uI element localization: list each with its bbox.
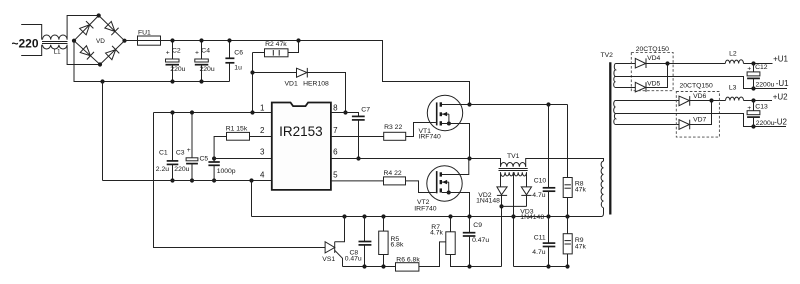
- svg-text:220u: 220u: [174, 166, 189, 173]
- diode bridge VD: [74, 16, 125, 65]
- svg-text:0.47u: 0.47u: [472, 237, 489, 244]
- wire drain bus to C10 R8: [470, 104, 568, 106]
- svg-text:1000p: 1000p: [217, 168, 236, 175]
- wire L1 bottom to bridge bottom vertex: [67, 45, 100, 65]
- node VD6 VD7 cathode junction: [709, 98, 713, 102]
- svg-text:C2: C2: [172, 47, 181, 54]
- svg-text:R4 22: R4 22: [384, 170, 402, 177]
- svg-text:220u: 220u: [170, 66, 185, 73]
- svg-text:L1: L1: [54, 49, 62, 56]
- wire AC input top: [21, 25, 42, 40]
- diode bridge top-left: [79, 21, 93, 35]
- svg-text:5: 5: [333, 171, 338, 180]
- svg-text:VD: VD: [96, 38, 105, 45]
- diode VD5 20CTQ150: [616, 64, 668, 92]
- wire U2 tap to minus rail: [616, 114, 787, 127]
- svg-text:6.8k: 6.8k: [391, 242, 404, 249]
- svg-text:6: 6: [333, 148, 338, 157]
- wire TV1 center tap down: [513, 172, 515, 266]
- svg-text:1N4148: 1N4148: [520, 214, 544, 221]
- wire pin4 ground drop: [251, 181, 253, 217]
- node minus rail ground drop junction: [100, 79, 104, 83]
- svg-text:4.7k: 4.7k: [430, 230, 443, 237]
- thyristor VS1: [322, 217, 344, 267]
- wire ground drop: [102, 82, 104, 181]
- svg-text:3: 3: [260, 148, 265, 157]
- diode VD7 20CTQ150: [616, 101, 712, 130]
- capacitor C3 220u: [174, 110, 198, 182]
- wire R2/VD1 branch vertical: [252, 53, 254, 113]
- svg-text:-U2: -U2: [774, 118, 787, 127]
- svg-text:+: +: [195, 50, 199, 57]
- inductor L2: [725, 51, 743, 64]
- op-amp U1 IR2153 IC body: [260, 103, 338, 190]
- wire pin3 line: [214, 158, 272, 160]
- svg-text:1u: 1u: [234, 64, 242, 71]
- transformer TV2 secondary winding U1: [614, 64, 616, 88]
- wire minus rail from left vertex: [74, 41, 230, 82]
- diode VD3 1N4148: [502, 187, 545, 221]
- diode VD1 HER108: [250, 68, 345, 113]
- diode bridge bottom-right: [105, 46, 119, 60]
- svg-text:C5: C5: [200, 156, 209, 163]
- svg-text:C9: C9: [473, 222, 482, 229]
- svg-text:R2 47k: R2 47k: [265, 41, 287, 48]
- svg-text:2.2u: 2.2u: [156, 166, 169, 173]
- wire feedback to VS1: [154, 113, 326, 248]
- svg-text:220u: 220u: [200, 66, 215, 73]
- node VT1 drain junction: [467, 102, 471, 106]
- wire Vcc rail pin1: [154, 112, 272, 114]
- svg-text:2200u: 2200u: [756, 120, 775, 127]
- wire bottom rail A: [343, 266, 396, 268]
- resistor R7 4.7k: [430, 217, 501, 267]
- svg-text:L2: L2: [729, 51, 737, 58]
- transformer TV2 secondary winding U2: [614, 101, 616, 125]
- capacitor C13 2200u: [747, 101, 775, 128]
- wire U1 tap to minus rail: [616, 77, 788, 89]
- svg-text:C10: C10: [534, 178, 547, 185]
- capacitor C12 2200u: [747, 64, 775, 89]
- svg-text:L3: L3: [729, 84, 737, 91]
- resistor R4 22: [331, 170, 436, 193]
- svg-text:VS1: VS1: [322, 256, 335, 263]
- svg-text:4.7u: 4.7u: [532, 192, 545, 199]
- svg-text:~220: ~220: [12, 37, 39, 51]
- dashed box 20CTQ150 upper: [631, 52, 673, 90]
- inductor L3: [726, 84, 744, 100]
- svg-text:C4: C4: [201, 47, 210, 54]
- resistor R1 15k: [214, 126, 272, 159]
- resistor R5 6.8k: [379, 217, 404, 269]
- svg-text:R1 15k: R1 15k: [226, 126, 248, 133]
- node bridge bottom vertex: [98, 62, 102, 66]
- transformer TV2 core: [609, 62, 611, 214]
- diode VD6 20CTQ150: [616, 93, 712, 106]
- diode VD2 1N4148: [476, 187, 507, 267]
- resistor R2 47k: [253, 38, 301, 56]
- svg-text:+: +: [166, 50, 170, 57]
- svg-text:2200u: 2200u: [756, 82, 775, 89]
- svg-text:4: 4: [260, 171, 265, 180]
- svg-text:FU1: FU1: [138, 29, 151, 36]
- svg-text:TV1: TV1: [507, 153, 520, 160]
- fuse FU1: [125, 29, 161, 45]
- svg-text:+: +: [747, 105, 751, 112]
- node bridge top vertex: [97, 13, 101, 17]
- wire TV1 left secondary to VD2: [500, 172, 502, 187]
- svg-text:20CTQ150: 20CTQ150: [680, 83, 713, 90]
- resistor R6 6.8k: [396, 242, 446, 271]
- svg-text:IRF740: IRF740: [419, 134, 442, 141]
- resistor R8 47k: [563, 178, 586, 217]
- capacitor C8 0.47u: [345, 217, 372, 269]
- capacitor C11 4.7u: [532, 217, 555, 269]
- node bridge left vertex: [72, 39, 76, 43]
- svg-text:8: 8: [333, 104, 338, 113]
- wire AC input bottom: [21, 45, 42, 56]
- svg-text:20CTQ150: 20CTQ150: [636, 46, 669, 53]
- diode bridge bottom-left: [80, 45, 94, 59]
- svg-text:1N4148: 1N4148: [476, 198, 500, 205]
- svg-text:C3: C3: [176, 149, 185, 156]
- dashed box 20CTQ150 lower: [676, 92, 719, 138]
- wire pin8 line: [331, 113, 359, 117]
- transistor VT2 IRF740: [414, 159, 469, 217]
- diode VD4 20CTQ150: [616, 55, 668, 68]
- transistor VT1 IRF740: [419, 95, 470, 158]
- inductor L1 common-mode choke: [42, 35, 68, 56]
- svg-text:HER108: HER108: [303, 80, 329, 87]
- wire L1 top to bridge top vertex: [67, 16, 99, 40]
- capacitor C4 220u: [195, 38, 215, 83]
- svg-text:47k: 47k: [575, 244, 587, 251]
- node bridge right vertex: [122, 39, 126, 43]
- svg-text:7: 7: [333, 126, 338, 135]
- svg-text:VD7: VD7: [693, 116, 706, 123]
- wire main plus rail: [161, 41, 470, 105]
- wire L3 to +U2: [744, 100, 773, 102]
- node VD4 VD5 cathode junction: [665, 61, 669, 65]
- svg-text:C1: C1: [159, 149, 168, 156]
- diode bridge top-right: [104, 21, 118, 35]
- capacitor C10 4.7u: [532, 178, 555, 217]
- svg-text:C13: C13: [755, 104, 768, 111]
- svg-text:VD4: VD4: [647, 55, 660, 62]
- wire ground rail: [103, 180, 272, 182]
- svg-text:4.7u: 4.7u: [532, 249, 545, 256]
- capacitor C6 1u: [225, 38, 243, 81]
- resistor R3 22: [331, 123, 436, 141]
- svg-text:IR2153: IR2153: [279, 124, 323, 139]
- transformer TV2 primary: [601, 52, 614, 208]
- svg-text:+U1: +U1: [773, 54, 788, 63]
- svg-text:2: 2: [260, 126, 265, 135]
- svg-text:47k: 47k: [575, 187, 587, 194]
- capacitor C5 1000p: [200, 156, 236, 183]
- capacitor C7: [352, 107, 370, 161]
- svg-text:+: +: [747, 65, 751, 72]
- resistor R9 47k: [563, 217, 586, 269]
- svg-text:R6 6.8k: R6 6.8k: [396, 257, 420, 264]
- wire bottom rail C: [514, 266, 568, 268]
- svg-text:TV2: TV2: [601, 52, 614, 59]
- wire ground rail 2: [252, 208, 604, 217]
- svg-text:C7: C7: [361, 107, 370, 114]
- wire L2 to +U1: [744, 63, 773, 65]
- svg-text:VD5: VD5: [647, 81, 660, 88]
- svg-text:VD6: VD6: [693, 93, 706, 100]
- svg-text:C11: C11: [534, 235, 546, 242]
- svg-text:-U1: -U1: [776, 79, 789, 88]
- wire pin6 node line: [331, 158, 470, 160]
- svg-text:+: +: [187, 147, 191, 154]
- svg-text:VD1: VD1: [285, 80, 298, 87]
- wire rectified U2 to L3: [712, 100, 726, 102]
- svg-text:C12: C12: [755, 64, 768, 71]
- capacitor C9 0.47u: [463, 217, 490, 269]
- svg-text:1: 1: [260, 104, 265, 113]
- svg-text:0.47u: 0.47u: [345, 255, 362, 262]
- svg-text:IRF740: IRF740: [414, 205, 437, 212]
- capacitor C2 220u: [166, 38, 186, 83]
- svg-text:+U2: +U2: [773, 93, 788, 102]
- transformer TV1: [470, 153, 604, 176]
- capacitor C1 2.2u: [156, 110, 179, 182]
- svg-text:C6: C6: [234, 49, 243, 56]
- svg-text:R3 22: R3 22: [384, 124, 402, 131]
- wire rectified U1 to L2: [668, 63, 726, 65]
- wire TV1 right secondary to VD3: [526, 172, 528, 187]
